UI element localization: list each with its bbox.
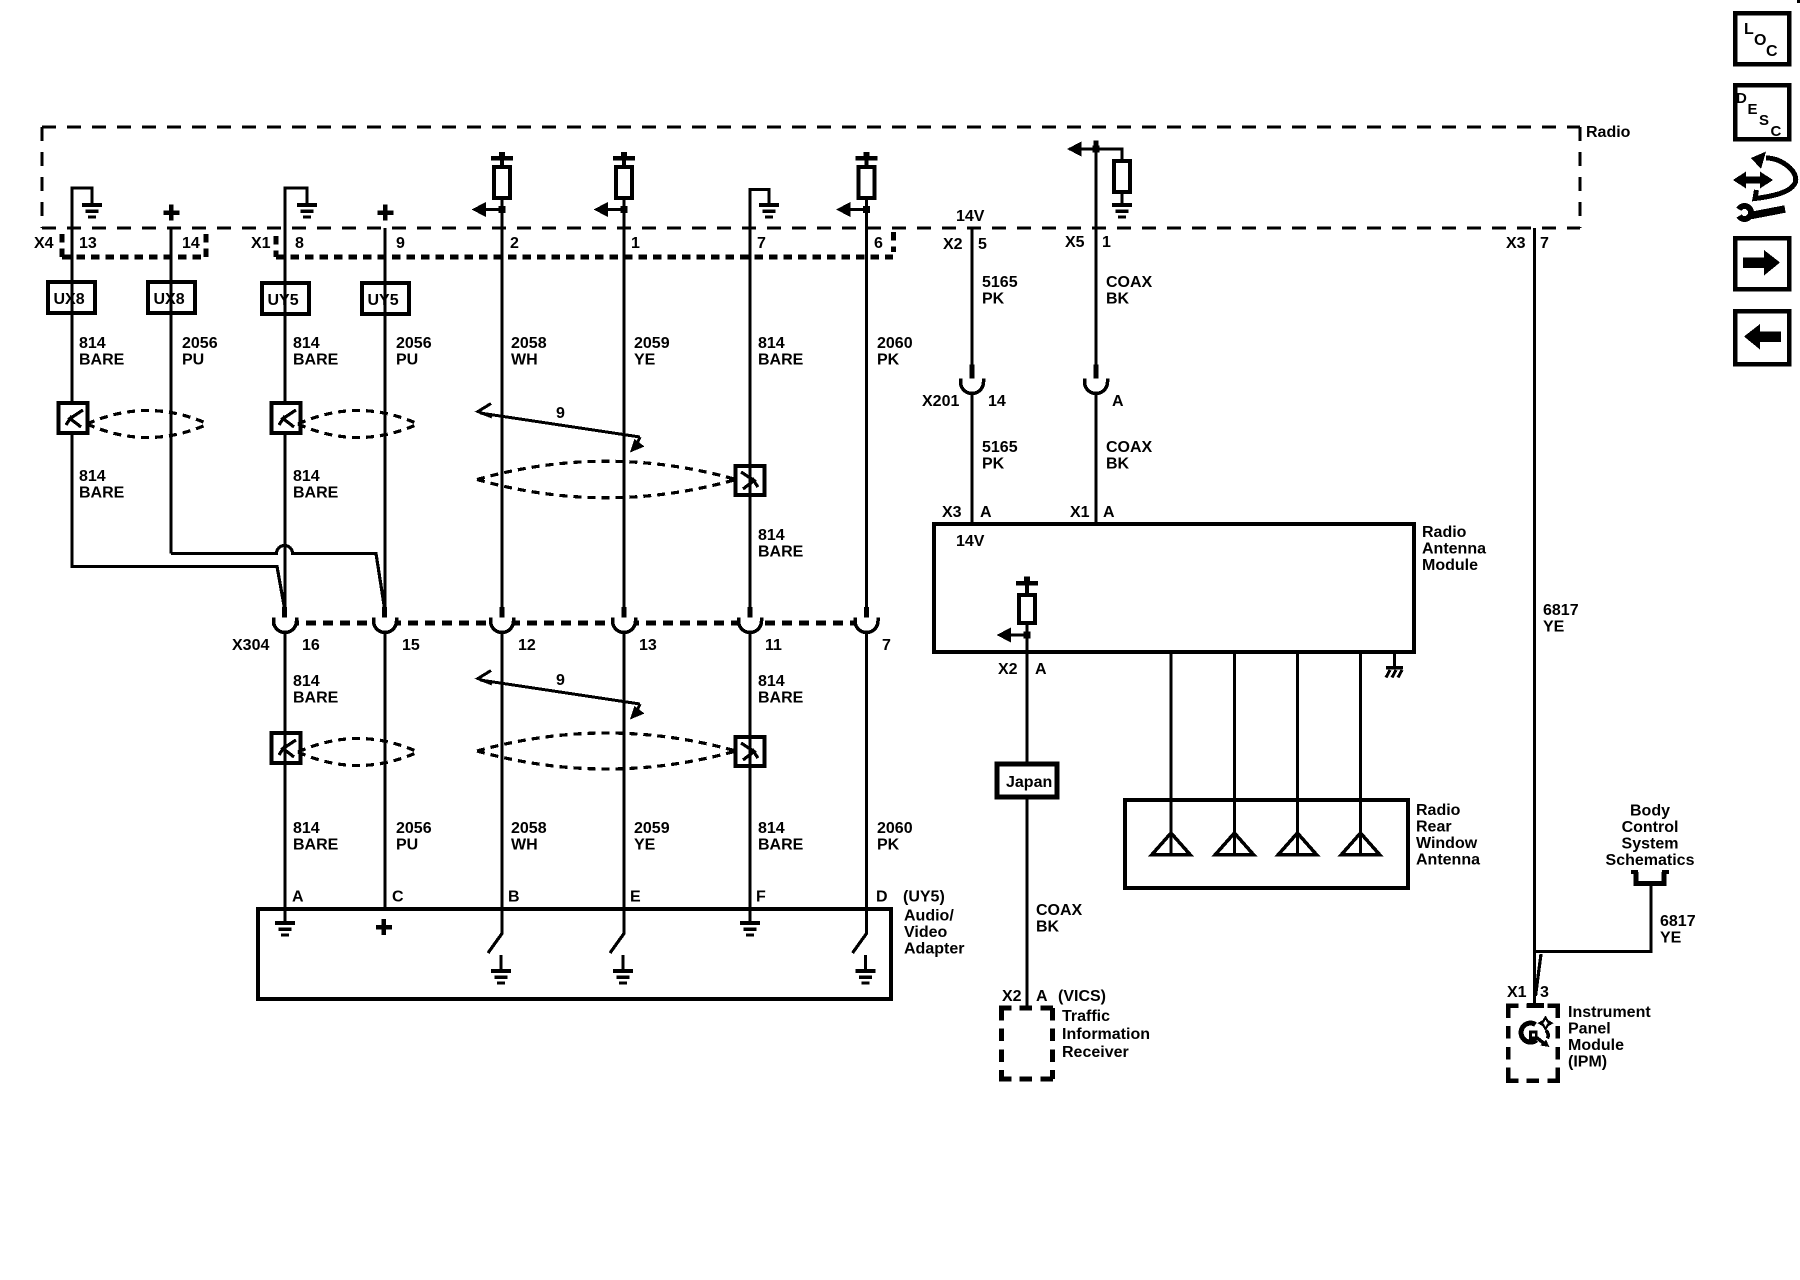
wire X304-7 to adapter pin D (865, 633, 868, 910)
scan artifact top-right corner (1797, 0, 1800, 3)
wire 8 continues straight to X304 pin 16 (283, 432, 286, 609)
antenna box caption Radio Rear Window Antenna (1416, 802, 1480, 869)
svg-text:PU: PU (396, 352, 418, 369)
option code UX8 box (pin 13) (48, 282, 95, 313)
wire X5-1 (COAX BK) upper (1094, 228, 1097, 366)
svg-text:A: A (292, 889, 304, 906)
svg-text:814: 814 (758, 527, 785, 544)
svg-text:814: 814 (79, 468, 106, 485)
svg-text:BARE: BARE (293, 352, 339, 369)
icon arrow-right box (1735, 238, 1789, 289)
X304 pin 7 contact (855, 607, 878, 633)
svg-text:Video: Video (904, 924, 948, 941)
antenna symbol 4 (1342, 800, 1380, 855)
svg-text:9: 9 (556, 405, 565, 422)
svg-text:Antenna: Antenna (1422, 541, 1486, 558)
wire pin7 internal ground lead (750, 190, 769, 229)
svg-text:L: L (1744, 21, 1754, 38)
svg-text:BARE: BARE (758, 544, 804, 561)
connector X304 dotted line (272, 621, 880, 626)
Radio component dashed box (42, 125, 1580, 128)
svg-text:PK: PK (982, 291, 1005, 308)
off-page connector staple (1631, 870, 1669, 884)
X304 pin 12 contact (491, 607, 514, 633)
svg-text:2: 2 (510, 235, 519, 252)
in-line connector X201 pin 14 (961, 365, 984, 394)
adapter caption (UY5) Audio/Video Adapter (903, 889, 964, 958)
svg-text:System: System (1622, 836, 1679, 853)
svg-text:X2: X2 (943, 236, 963, 253)
antenna symbol 2 (1215, 800, 1253, 855)
ground symbol (pin 8 circuit) (297, 203, 317, 219)
svg-text:BARE: BARE (758, 837, 804, 854)
svg-text:14V: 14V (956, 533, 985, 550)
svg-text:814: 814 (293, 820, 320, 837)
svg-text:5165: 5165 (982, 439, 1018, 456)
svg-text:3: 3 (1540, 984, 1549, 1001)
svg-text:5165: 5165 (982, 274, 1018, 291)
svg-text:E: E (1748, 101, 1758, 118)
svg-text:BK: BK (1036, 919, 1060, 936)
wire X304-16 to adapter pin A (283, 633, 286, 910)
svg-text:(VICS): (VICS) (1058, 988, 1106, 1005)
svg-text:X3: X3 (942, 504, 962, 521)
wire merge diagonal into IPM pin (1536, 954, 1542, 996)
svg-text:YE: YE (634, 352, 656, 369)
svg-text:7: 7 (1540, 235, 1549, 252)
svg-text:X2: X2 (1002, 988, 1022, 1005)
shield splice box on wire 11 (lower) (736, 737, 765, 766)
ground symbol (pin 13 circuit) (82, 203, 102, 219)
svg-text:X3: X3 (1506, 235, 1526, 252)
gauge icon inside IPM (1521, 1016, 1553, 1048)
svg-text:Receiver: Receiver (1062, 1044, 1129, 1061)
svg-text:COAX: COAX (1106, 274, 1153, 291)
svg-text:2060: 2060 (877, 820, 913, 837)
wire pin8 internal ground lead (285, 188, 307, 228)
chassis ground at module bottom (1386, 652, 1403, 678)
plus terminal (pin 14 circuit) (164, 205, 180, 221)
Audio/Video Adapter box (258, 909, 891, 999)
svg-text:2060: 2060 (877, 335, 913, 352)
module antenna wire 4 (1359, 652, 1362, 800)
svg-text:YE: YE (634, 837, 656, 854)
svg-text:S: S (1759, 112, 1769, 129)
svg-text:PK: PK (877, 837, 900, 854)
svg-text:Instrument: Instrument (1568, 1004, 1651, 1021)
svg-text:15: 15 (402, 637, 420, 654)
svg-text:7: 7 (882, 637, 891, 654)
wire 6817 YE from staple (1535, 886, 1652, 952)
svg-text:X304: X304 (232, 637, 269, 654)
svg-text:B: B (508, 889, 520, 906)
svg-text:BARE: BARE (758, 352, 804, 369)
svg-text:O: O (1754, 32, 1766, 49)
resistor termination inside module (X2-A) (997, 577, 1039, 653)
svg-text:Information: Information (1062, 1026, 1150, 1043)
svg-text:WH: WH (511, 837, 538, 854)
svg-text:Radio: Radio (1416, 802, 1461, 819)
icon service wrench with arrows (1733, 152, 1796, 221)
svg-text:Adapter: Adapter (904, 941, 964, 958)
wire X4-13 down to splice (70, 228, 73, 405)
switch to ground at adapter pin E (610, 909, 633, 985)
svg-text:A: A (980, 504, 992, 521)
icon LOC box (1735, 13, 1789, 64)
wire X1-6 down to X304 pin 7 (865, 228, 868, 608)
svg-text:Module: Module (1422, 557, 1478, 574)
svg-text:9: 9 (556, 672, 565, 689)
X304 pin 13 contact (613, 607, 636, 633)
plus terminal (pin 9 circuit) (378, 205, 394, 221)
ground symbol (X5 branch) (1112, 203, 1132, 219)
wire 5165 PK lower (970, 394, 973, 525)
svg-text:814: 814 (758, 820, 785, 837)
svg-text:2058: 2058 (511, 335, 547, 352)
label Body Control System Schematics (1606, 803, 1695, 870)
svg-text:(UY5): (UY5) (903, 889, 945, 906)
svg-text:C: C (1766, 43, 1778, 60)
ground symbol (pin 7 circuit) (759, 203, 779, 219)
svg-text:E: E (630, 889, 641, 906)
switch to ground at adapter pin D (853, 909, 876, 985)
svg-text:BARE: BARE (758, 690, 804, 707)
ground symbol at adapter pin F (740, 909, 760, 937)
svg-text:X201: X201 (922, 393, 959, 410)
svg-text:PU: PU (396, 837, 418, 854)
splice box on wire 16 (lower) (272, 733, 301, 763)
svg-text:Control: Control (1622, 819, 1679, 836)
svg-text:9: 9 (396, 235, 405, 252)
svg-text:Japan: Japan (1006, 774, 1052, 791)
svg-text:6: 6 (874, 235, 883, 252)
svg-text:Audio/: Audio/ (904, 908, 954, 925)
twisted pair ellipse (X1 pair) (298, 411, 418, 438)
svg-text:Antenna: Antenna (1416, 852, 1480, 869)
svg-text:YE: YE (1543, 619, 1565, 636)
svg-text:814: 814 (79, 335, 106, 352)
Radio Rear Window Antenna box (1125, 800, 1408, 888)
svg-text:UY5: UY5 (268, 292, 299, 309)
svg-text:BK: BK (1106, 456, 1130, 473)
receiver caption Traffic Information Receiver (1062, 1008, 1150, 1061)
wire X1-2 down to X304 pin 12 (500, 228, 503, 608)
svg-text:6817: 6817 (1660, 913, 1696, 930)
X304 pin 15 contact (374, 607, 397, 633)
svg-text:814: 814 (758, 673, 785, 690)
svg-text:14: 14 (182, 235, 200, 252)
svg-text:2056: 2056 (396, 820, 432, 837)
resistor termination (pin 1 circuit) (594, 152, 636, 228)
switch to ground at adapter pin B (488, 909, 511, 985)
svg-text:1: 1 (1102, 234, 1111, 251)
wire X304-13 to adapter pin E (622, 633, 625, 910)
twisted/shield ellipse (2058/2059 pair upper) (477, 461, 736, 498)
in-line connector X201 pin A (1085, 365, 1108, 394)
svg-text:Rear: Rear (1416, 819, 1452, 836)
option code UY5 box (pin 8) (262, 283, 309, 314)
option code UY5 box (pin 9) (362, 283, 409, 314)
svg-text:8: 8 (295, 235, 304, 252)
Radio Antenna Module box (934, 524, 1414, 652)
ground symbol at adapter pin A (275, 909, 295, 937)
svg-text:2056: 2056 (182, 335, 218, 352)
wire X304-15 to adapter pin C (383, 633, 386, 910)
wire COAX BK to VICS receiver (1025, 797, 1028, 1008)
Traffic Information Receiver dashed box (999, 1006, 1055, 1011)
svg-text:X1: X1 (251, 235, 271, 252)
connector X1 dotted outline (276, 232, 894, 257)
module antenna wire 2 (1233, 652, 1236, 800)
svg-text:2058: 2058 (511, 820, 547, 837)
X304 pin 11 contact (739, 607, 762, 633)
twisted pair ellipse (X4 pair) (87, 411, 208, 438)
svg-text:UX8: UX8 (54, 291, 85, 308)
wire 13 continues to X304 pin 16 (72, 432, 285, 609)
svg-text:13: 13 (639, 637, 657, 654)
wire X2-A to Japan splice (1025, 652, 1028, 764)
svg-text:F: F (756, 889, 766, 906)
wire X1-1 down to X304 pin 13 (622, 228, 625, 608)
svg-text:UX8: UX8 (154, 291, 185, 308)
wire pin13 internal ground lead (72, 188, 92, 228)
svg-text:Schematics: Schematics (1606, 852, 1695, 869)
svg-text:Traffic: Traffic (1062, 1008, 1110, 1025)
svg-text:Module: Module (1568, 1037, 1624, 1054)
svg-text:BARE: BARE (79, 352, 125, 369)
splice box on wire 8 (272, 403, 301, 433)
wire X2-5 (5165 PK) upper (970, 228, 973, 366)
svg-text:C: C (1771, 123, 1782, 140)
svg-text:14V: 14V (956, 208, 985, 225)
svg-text:7: 7 (757, 235, 766, 252)
svg-text:C: C (392, 889, 404, 906)
svg-text:A: A (1036, 988, 1048, 1005)
svg-text:X5: X5 (1065, 234, 1085, 251)
resistor termination (pin 2 circuit) (472, 152, 514, 228)
wire COAX BK lower (1094, 394, 1097, 525)
svg-text:12: 12 (518, 637, 536, 654)
wire X304-12 to adapter pin B (500, 633, 503, 910)
svg-text:BARE: BARE (293, 690, 339, 707)
icon arrow-left box (1735, 311, 1789, 364)
IPM caption Instrument Panel Module (IPM) (1568, 1004, 1651, 1071)
shield splice box on wire 7 (upper) (736, 466, 765, 495)
twist note 9 arrow (upper) (478, 404, 645, 453)
X5 pin 1 internal branch wire (1067, 141, 1122, 229)
svg-text:16: 16 (302, 637, 320, 654)
svg-text:YE: YE (1660, 930, 1682, 947)
svg-text:X2: X2 (998, 661, 1018, 678)
resistor termination (pin 6 circuit) (836, 152, 878, 228)
twist note 9 arrow (lower) (478, 671, 645, 720)
svg-text:X4: X4 (34, 235, 54, 252)
twisted pair ellipse (lower left pair) (298, 739, 418, 766)
svg-text:COAX: COAX (1036, 902, 1083, 919)
svg-text:2059: 2059 (634, 335, 670, 352)
IPM pin entry bar (1527, 1003, 1544, 1008)
svg-text:BARE: BARE (293, 485, 339, 502)
svg-text:13: 13 (79, 235, 97, 252)
svg-text:1: 1 (631, 235, 640, 252)
svg-text:BK: BK (1106, 291, 1130, 308)
svg-text:A: A (1035, 661, 1047, 678)
antenna symbol 1 (1152, 800, 1190, 855)
svg-text:6817: 6817 (1543, 602, 1579, 619)
svg-text:814: 814 (293, 673, 320, 690)
wire X1-8 down to splice (283, 228, 286, 405)
svg-text:UY5: UY5 (368, 292, 399, 309)
wire X1-9 down (383, 228, 386, 608)
icon DESC box (1735, 85, 1789, 140)
svg-text:PK: PK (877, 352, 900, 369)
plus terminal at adapter pin C (376, 919, 392, 935)
svg-text:COAX: COAX (1106, 439, 1153, 456)
splice box on wire 13 (59, 403, 88, 433)
svg-text:2059: 2059 (634, 820, 670, 837)
svg-text:Radio: Radio (1586, 124, 1631, 141)
svg-text:A: A (1112, 393, 1124, 410)
wire X3-7 (6817 YE) long vertical (1533, 228, 1536, 1003)
wire X4-14 down (169, 228, 172, 554)
svg-text:D: D (876, 889, 888, 906)
svg-text:D: D (1736, 90, 1747, 107)
svg-text:X1: X1 (1070, 504, 1090, 521)
X304 pin 16 contact (274, 607, 297, 633)
resistor to ground (X5 branch) (1114, 161, 1130, 203)
svg-text:WH: WH (511, 352, 538, 369)
svg-text:14: 14 (988, 393, 1006, 410)
svg-text:Window: Window (1416, 835, 1478, 852)
Instrument Panel Module dashed box (1506, 1003, 1560, 1008)
module caption Radio Antenna Module (1422, 524, 1486, 574)
svg-text:A: A (1103, 504, 1115, 521)
module antenna wire 3 (1296, 652, 1299, 800)
antenna symbol 3 (1278, 800, 1316, 855)
svg-text:Radio: Radio (1422, 524, 1467, 541)
svg-text:(IPM): (IPM) (1568, 1054, 1607, 1071)
svg-text:2056: 2056 (396, 335, 432, 352)
svg-text:814: 814 (293, 335, 320, 352)
wire X1-7 down to X304 pin 11 (748, 228, 751, 608)
svg-text:PK: PK (982, 456, 1005, 473)
svg-text:Panel: Panel (1568, 1021, 1611, 1038)
module antenna wire 1 (1169, 652, 1172, 800)
svg-text:PU: PU (182, 352, 204, 369)
connector X4 dotted outline (62, 234, 206, 257)
svg-text:Body: Body (1630, 803, 1670, 820)
svg-text:BARE: BARE (293, 837, 339, 854)
svg-text:BARE: BARE (79, 485, 125, 502)
wire 14 horizontal with hop to X304 pin 15 (171, 546, 385, 609)
svg-text:11: 11 (765, 637, 782, 654)
svg-text:814: 814 (758, 335, 785, 352)
twisted/shield ellipse (2058/2059 pair lower) (477, 733, 736, 769)
Japan box (997, 764, 1057, 797)
wire X304-11 to adapter pin F (748, 633, 751, 910)
svg-text:814: 814 (293, 468, 320, 485)
option code UX8 box (pin 14) (148, 282, 195, 313)
svg-text:5: 5 (978, 236, 987, 253)
svg-text:X1: X1 (1507, 984, 1527, 1001)
